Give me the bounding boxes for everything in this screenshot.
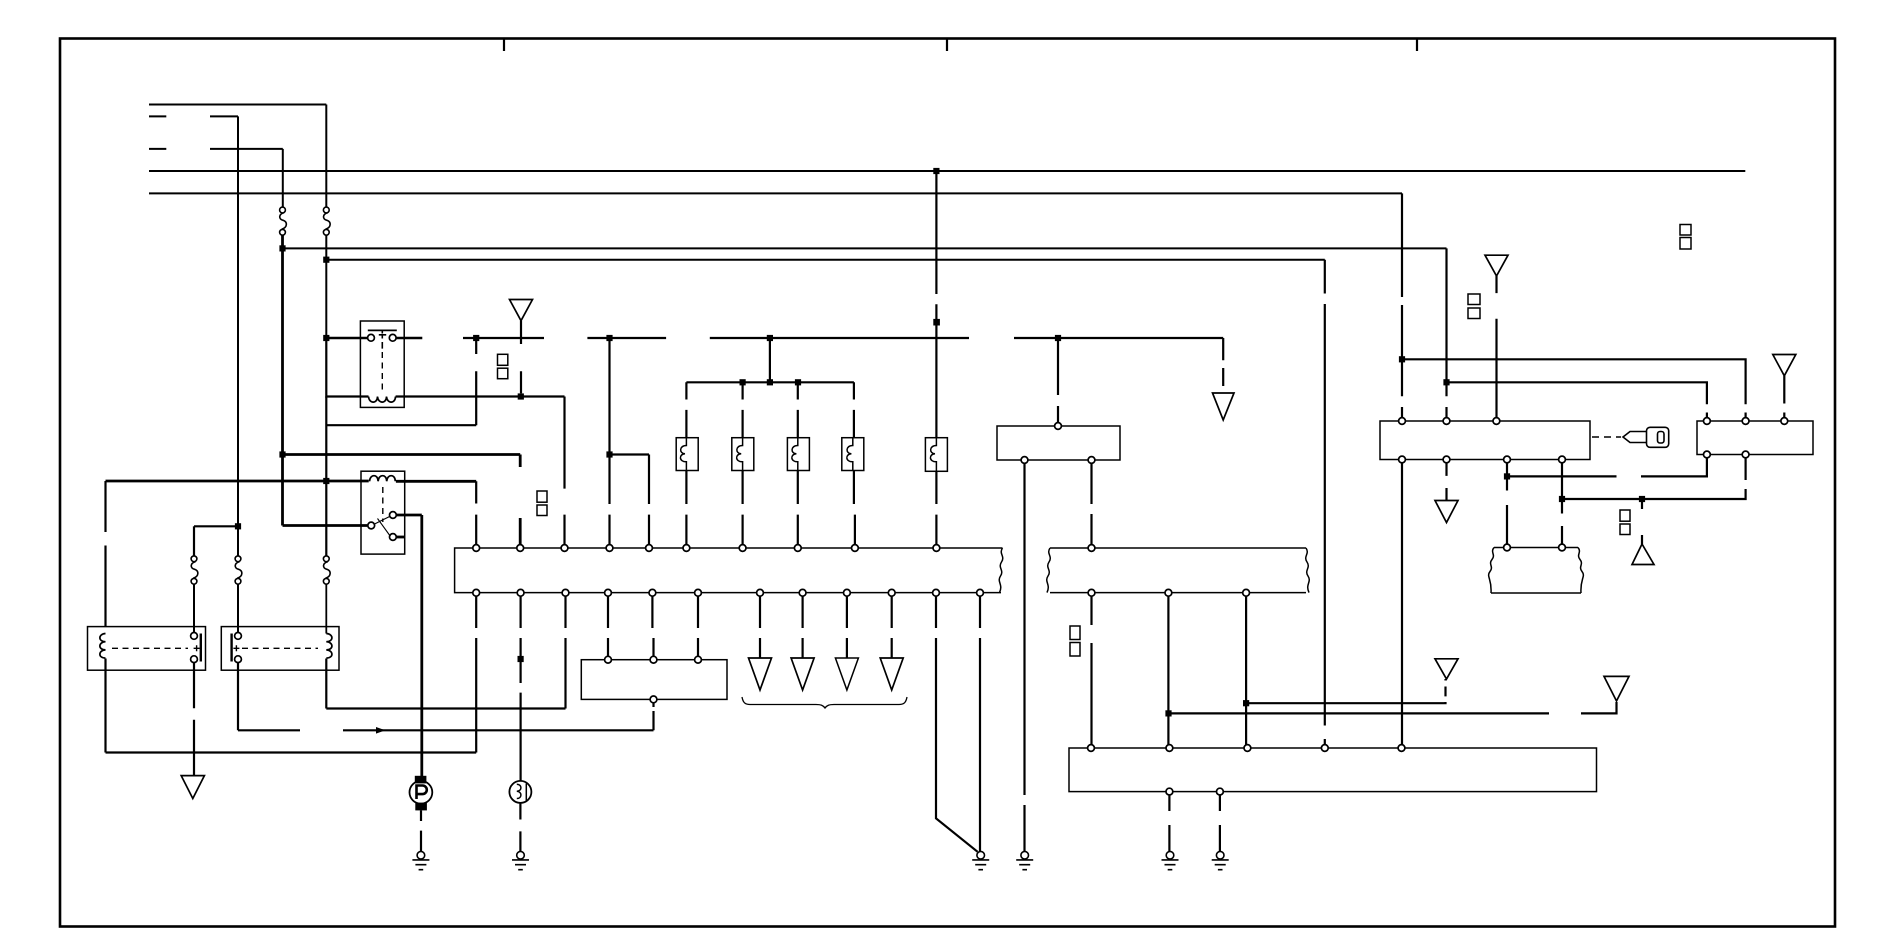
junction marker gauge wire — [518, 656, 524, 662]
junction up-triangle stem — [1639, 496, 1645, 502]
ground triangle box R — [1773, 355, 1796, 376]
breaker CB5 — [925, 438, 947, 472]
wire fuse F1 down to relay K2 switch — [281, 235, 284, 525]
wire relay K1 left pin — [326, 337, 368, 340]
wire relay K1 coil out — [396, 395, 565, 397]
wire drop to breaker CB1 — [685, 382, 687, 437]
breaker CB4 — [842, 438, 864, 471]
wire bus338 segment c — [710, 337, 969, 339]
wire relay K1 frame drop to coil — [326, 338, 368, 397]
wire C2 pin1b drop — [1090, 596, 1092, 744]
junction node 609 bus338 — [606, 335, 612, 341]
wire node326 to fuse F8 — [325, 481, 327, 558]
wire relay K1 right pin stub — [396, 337, 423, 340]
wire bus2 dashed feed — [149, 115, 238, 117]
wire bus1 top feed — [149, 104, 326, 106]
fuse F1 — [280, 207, 287, 235]
wire U2 left pin to ground G4 — [1023, 463, 1025, 851]
wire C1 pin9b to arrow — [846, 596, 848, 658]
junction y499 start — [1559, 496, 1565, 502]
fuse F2 — [323, 207, 330, 235]
sub connector box S1 — [581, 656, 727, 703]
wire drop C1 pin2 feed — [519, 455, 522, 545]
junction y476 start — [1504, 473, 1510, 479]
wire bus338 segment d — [1014, 337, 1223, 339]
key link dashed — [1592, 436, 1621, 438]
ground G6 — [1212, 851, 1229, 869]
wire F6 top — [193, 526, 195, 556]
arrow triangle pin7 — [749, 658, 772, 690]
relay K1 — [360, 321, 404, 407]
ground G2 — [412, 851, 429, 869]
wire C1 pin8b to arrow — [801, 596, 803, 658]
wire CB3 to C1 pin8t — [797, 471, 799, 545]
connector squares pair P5 — [1680, 225, 1691, 250]
wire bus338 segment a — [463, 337, 544, 339]
breaker CB3 — [787, 438, 809, 471]
wire box L pin4b drop — [1561, 463, 1563, 544]
junction y713 start — [1165, 710, 1171, 716]
wiper motor box B — [221, 627, 339, 671]
connector C1 bottom pins — [473, 589, 984, 596]
wire y703 to ground triangle C — [1246, 679, 1445, 703]
brace under arrows — [742, 697, 907, 708]
wire bus338 segment b — [587, 337, 666, 339]
junction y382 x798 — [795, 379, 801, 385]
junction relay K1 pin feed — [323, 335, 329, 341]
junction fuse F5 wire marker — [933, 319, 940, 326]
ground G1 — [972, 851, 989, 869]
wire y359 to box R pin2t — [1402, 359, 1746, 417]
wire bus6 drop x1446 — [1445, 248, 1447, 417]
wire C2 pin2b drop — [1167, 596, 1169, 744]
arrow triangle B from-page — [1485, 255, 1508, 276]
wire relay K2 coil out — [396, 480, 476, 483]
wire up-triangle stem — [1641, 499, 1643, 544]
wire box B coil bottom drop — [325, 659, 327, 709]
wire C2 pin3b drop — [1245, 596, 1247, 744]
motor M1 P — [410, 776, 433, 811]
wire node609 drop to C1 pin4t — [608, 455, 610, 545]
connector C2 pins — [1088, 545, 1249, 597]
arrow triangle pin8 — [791, 658, 814, 690]
junction node 1058 bus338 — [1055, 335, 1061, 341]
wire bus3 dashed feed — [149, 148, 283, 150]
wire relay K2 switch-in — [283, 524, 368, 527]
connector box R — [1697, 418, 1813, 458]
wire y713 to ground triangle D — [1168, 702, 1616, 713]
wire relay K2 out lower stub — [396, 536, 404, 539]
wire C1 pin12b to ground — [979, 596, 981, 851]
junction bus7 at fuse F2 — [323, 257, 329, 263]
wire coil feed y481 — [106, 480, 369, 483]
connector squares pair P1 — [498, 354, 508, 378]
junction y481 x326 handled above; relay K2 — [361, 471, 405, 554]
junction y382 start — [1443, 379, 1449, 385]
wire big box pin1b to ground G5 — [1168, 795, 1170, 851]
junction y703 start — [1243, 700, 1249, 706]
control unit big box — [1069, 745, 1597, 795]
connector C1 top pins — [473, 545, 940, 552]
arrow triangle A from-page — [510, 300, 533, 321]
wire fuse F5 drop from bus4 — [935, 171, 937, 438]
wire gauge to ground — [519, 803, 521, 851]
wire C1 pin11b to ground — [936, 596, 978, 852]
wire F6 to box A pin — [193, 584, 195, 633]
ground triangle C — [1435, 659, 1458, 679]
washer motor box A — [88, 627, 206, 671]
wire bus7 rail — [326, 259, 1325, 261]
wire box A coil feed drop — [104, 481, 106, 627]
wire C1 pin5b drop — [652, 596, 653, 656]
wire U2 right pin to C2 pin — [1090, 463, 1092, 544]
junction node 770 bus338 — [767, 335, 773, 341]
wire C1 pin2b gauge feed — [519, 596, 521, 781]
junction bus4 fuse F5 tap — [933, 168, 939, 174]
wire triangle A stem — [520, 321, 522, 394]
wire bus2 drop to node 238 — [237, 116, 239, 556]
wire S1 bottom pin to y730 — [652, 703, 654, 731]
wire relay K2 out upper — [396, 514, 422, 517]
key symbol — [1623, 427, 1669, 447]
arrow triangle pin9 — [835, 658, 858, 690]
wire drop to breaker CB2 — [741, 382, 743, 437]
wire return y752 — [106, 751, 477, 753]
wire box A coil bottom drop — [104, 659, 106, 753]
wire node1058 drop to box U2 — [1057, 338, 1059, 423]
wire drop to breaker CB4 — [853, 382, 855, 437]
wire triangle B stem — [1495, 276, 1497, 418]
wire CB1 to C1 pin6t — [685, 471, 687, 545]
junction node770 y382 — [767, 379, 773, 385]
wire fuse F2 down to relay K1 — [325, 235, 327, 338]
wire y708 link — [326, 707, 565, 709]
wire triangle to box R pin3t — [1783, 376, 1785, 418]
wire C1 pin1b riser — [475, 596, 477, 752]
junction node609 y454 — [606, 451, 612, 457]
connector squares pair P4 — [1620, 510, 1630, 535]
junction triangle A stem — [518, 393, 524, 399]
wire y730 link to sub box — [238, 729, 654, 731]
arrow triangle up from-page — [1632, 544, 1654, 565]
wire bus7 drop x1325 — [1324, 260, 1326, 745]
arrow triangle to-page right — [1213, 393, 1235, 420]
ground triangle D — [1604, 676, 1629, 701]
fuse F7 — [235, 556, 242, 584]
arrow triangle pin10 — [880, 658, 903, 690]
wire node282 to connector C1 pin2 feed — [283, 453, 521, 456]
wire C1 pin4b drop — [607, 596, 609, 656]
wire fuse F8 to coil box B — [325, 584, 327, 634]
wire x476 riser — [475, 338, 477, 425]
wire y526 link F6 — [194, 525, 238, 527]
junction x238 y526 — [235, 523, 241, 529]
ground G4 — [1016, 851, 1033, 869]
wire box L pin1b long drop — [1401, 463, 1403, 745]
junction node 282 y454 — [279, 451, 285, 457]
wire K1 coil corner drop to C1 pin3 — [563, 397, 565, 545]
fuel sender gauge — [509, 781, 531, 803]
wire big box pin2b to ground G6 — [1219, 795, 1221, 851]
box U2 — [997, 423, 1120, 464]
connector squares pair P3 — [1070, 626, 1080, 656]
connector C1 box — [455, 548, 1003, 593]
wire F7 to box B pin — [237, 584, 239, 633]
connector squares pair P2 — [537, 491, 547, 516]
fuse F6 — [191, 556, 198, 584]
wire K2 coil drop to C1 pin1t — [475, 481, 477, 545]
connector squares pair P6 — [1468, 294, 1480, 319]
junction bus6 at fuse F1 — [279, 245, 285, 251]
ground G5 — [1162, 851, 1179, 869]
wire CB4 to C1 pin9t — [854, 471, 855, 545]
arrow triangle E to-page — [1435, 501, 1458, 523]
wire C1 pin7b to arrow — [759, 596, 761, 658]
junction y382 x742 — [740, 379, 746, 385]
wire box B pin bottom — [237, 663, 239, 731]
wire CB5 to C1 pin10t — [935, 471, 937, 545]
wire bus5 rail — [149, 192, 1402, 194]
wire box A pin bottom to arrow — [193, 663, 195, 776]
connector C2 box — [1047, 548, 1310, 593]
wire box L pin3b drop — [1506, 463, 1508, 544]
wire node609 drop — [608, 338, 610, 455]
wire motor feed drop x421 — [420, 515, 423, 776]
breaker CB2 — [732, 438, 754, 471]
wire C1 pin3b riser — [564, 596, 566, 708]
sub connector box S2 — [1489, 544, 1584, 593]
wire C1 pin6b drop — [697, 596, 699, 656]
junction y359 start — [1399, 356, 1405, 362]
wire drop to breaker CB3 — [797, 382, 799, 437]
wire box L pin2b to arrow E — [1445, 463, 1447, 501]
wire y425 link — [326, 424, 476, 426]
wire motor M1 to ground — [420, 810, 422, 851]
wire fuse feeder y382 — [686, 381, 854, 383]
connector box L — [1380, 418, 1590, 463]
wire bus338 corner drop to arrow — [1222, 338, 1224, 386]
wire y476 link to box R pin1b — [1507, 458, 1707, 477]
wire y499 link to box R pin2b — [1562, 458, 1746, 499]
wire bus6 rail — [283, 247, 1447, 249]
wire y382 to box R pin1t — [1447, 382, 1707, 417]
wire node609 to x649 — [610, 453, 650, 455]
fuse F8 — [323, 556, 330, 584]
junction x476 bus338 — [473, 335, 479, 341]
wire bus3 drop to fuse F1 — [282, 149, 284, 207]
arrow triangle below box A — [181, 776, 204, 799]
wire CB2 to C1 pin7t — [741, 471, 743, 545]
wire bus1 drop to fuse F2 — [325, 105, 327, 208]
junction node 326 y481 — [323, 478, 329, 484]
breaker CB1 — [676, 438, 698, 471]
arrow marker y730 — [376, 727, 386, 734]
wire node770 stem — [769, 338, 771, 382]
wire bus5 drop x1402 — [1401, 193, 1403, 417]
wire bus4 B+ rail — [149, 170, 1745, 172]
wire node326 down segment — [325, 397, 327, 482]
ground G3 — [512, 851, 529, 869]
wire x649 drop to C1 pin5t — [648, 455, 650, 545]
wire C1 pin10b to arrow — [891, 596, 893, 658]
